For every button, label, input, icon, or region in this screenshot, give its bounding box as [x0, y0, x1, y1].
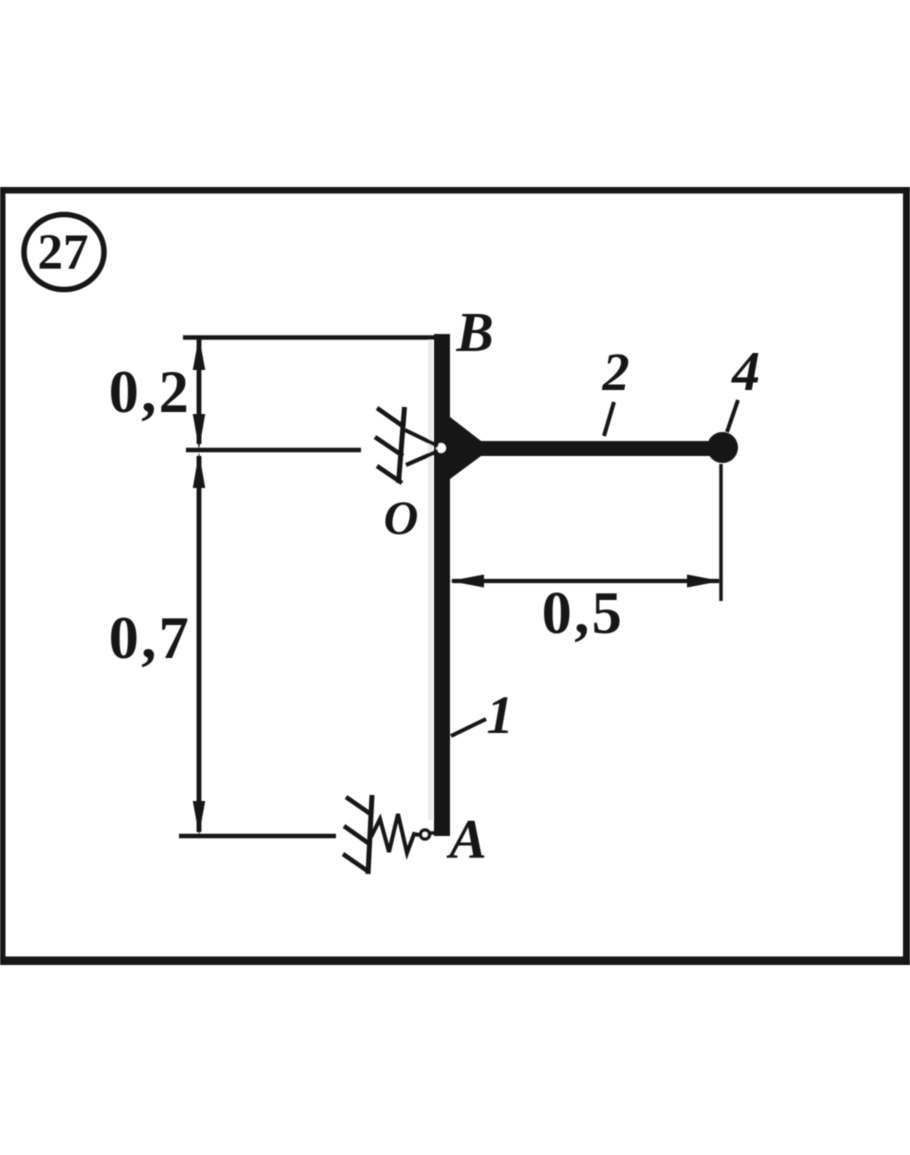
support A wall line [368, 795, 372, 874]
rod 2 flared joint at O [450, 417, 481, 479]
dimension line 0,2 vertical segment [197, 339, 202, 444]
svg-text:O: O [384, 492, 419, 545]
svg-text:0,7: 0,7 [109, 605, 192, 671]
arrowhead left of 0,5 [450, 575, 484, 588]
support O hatch tick 3 [377, 466, 402, 483]
support A hatch tick 3 [343, 854, 369, 872]
pin at A [421, 830, 430, 839]
svg-text:B: B [455, 302, 493, 364]
arrowhead down at bottom of 0,7 [193, 801, 205, 835]
leader line for label 2 [604, 402, 614, 436]
frame border left [0, 187, 6, 965]
svg-text:0,2: 0,2 [109, 359, 192, 425]
svg-text:0,5: 0,5 [542, 580, 625, 646]
frame border right [903, 187, 910, 965]
svg-text:4: 4 [731, 341, 760, 403]
svg-text:A: A [446, 809, 486, 871]
svg-text:27: 27 [38, 225, 89, 281]
arrowhead up at top of 0,7 [193, 453, 205, 489]
dimension line 0,5 [452, 579, 719, 583]
support A hatch tick 1 [346, 797, 372, 815]
frame border bottom [0, 957, 910, 966]
arrowhead down at bottom of 0,2 [193, 414, 205, 450]
dimension line 0,7 vertical segment [197, 456, 202, 832]
support O hatch tick 2 [375, 437, 403, 456]
support O hatch tick 1 [377, 408, 404, 427]
rod 1 (vertical bar AB) [434, 334, 450, 836]
svg-text:2: 2 [602, 342, 630, 402]
support A zigzag link [371, 814, 419, 853]
arrowhead right of 0,5 [687, 575, 721, 588]
ball 4 at end of rod 2 [707, 432, 738, 463]
extension line below ball 4 [719, 464, 723, 601]
support O upper leg [405, 430, 438, 446]
extension line at O level [186, 448, 361, 453]
rod 2 (horizontal bar) [450, 441, 723, 456]
leader line for label 4 [727, 400, 738, 432]
bottom extension line at A level [179, 834, 336, 839]
arrowhead up at top of 0,2 [193, 336, 205, 370]
support A hatch tick 2 [344, 826, 371, 845]
leader line for label 1 [451, 719, 486, 736]
svg-text:1: 1 [487, 685, 514, 745]
problem number circle 27 [24, 215, 104, 290]
pin hole at O [436, 443, 446, 453]
frame border [0, 187, 910, 194]
support O lower leg [406, 451, 438, 465]
top extension line at B level [183, 335, 449, 340]
support O wall line [399, 407, 405, 483]
link from pin A to rod 1 [428, 831, 435, 835]
scan shadow left of rod 1 [428, 340, 433, 820]
